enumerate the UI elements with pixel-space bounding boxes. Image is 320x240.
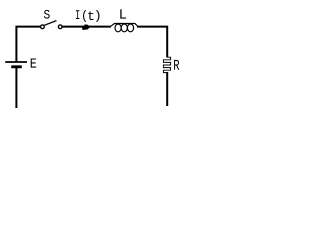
wire below resistor [166, 73, 168, 105]
wire switch to inductor [63, 26, 110, 28]
label S [44, 10, 50, 19]
wire below battery [15, 68, 17, 107]
switch S contact circles [41, 21, 63, 29]
label I(t) - I [76, 10, 80, 19]
inductor L coil body [110, 24, 138, 32]
switch blade [44, 21, 56, 26]
label I(t) - paren close [96, 10, 100, 22]
current arrow I(t) [82, 24, 90, 30]
label E [31, 59, 37, 68]
inductor loop 1 [115, 24, 121, 32]
label L [120, 9, 126, 18]
battery E long thin plate [5, 61, 27, 63]
label I(t) - t [88, 11, 93, 20]
battery E short thick plate [11, 65, 22, 68]
inductor loop 2 [121, 24, 127, 32]
label R [174, 60, 179, 70]
wire top-left horizontal and left vertical [16, 27, 40, 62]
label I(t) - paren open [83, 10, 86, 22]
resistor R zigzag [163, 56, 170, 73]
inductor loop 3 [127, 24, 133, 32]
wire inductor to top-right corner and down to resistor [138, 27, 167, 57]
